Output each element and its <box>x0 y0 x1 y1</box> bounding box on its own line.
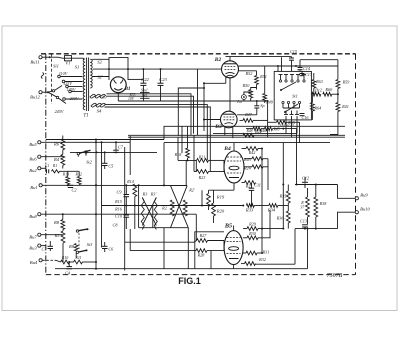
svg-text:La: La <box>236 99 241 104</box>
svg-text:C22: C22 <box>141 77 149 82</box>
wire B3 grid left <box>203 83 221 131</box>
svg-text:R64: R64 <box>313 106 321 111</box>
tube B3 pins <box>225 126 233 138</box>
svg-text:Bu1: Bu1 <box>30 185 37 190</box>
wire v197 <box>197 69 199 135</box>
resistor R3' <box>150 191 157 196</box>
fuse V1 <box>63 56 74 66</box>
resistor R3 <box>142 191 148 196</box>
resistor R11 <box>70 255 97 264</box>
wire v211 <box>210 251 212 269</box>
wire Bu8 <box>29 213 196 219</box>
wire B3 plate right <box>237 114 257 116</box>
svg-text:C12: C12 <box>302 176 309 181</box>
label R15 <box>114 199 122 204</box>
svg-text:R45: R45 <box>272 127 279 131</box>
svg-text:R36–: R36– <box>276 216 287 221</box>
wire bus v101 <box>101 142 103 248</box>
svg-text:Si1: Si1 <box>53 64 59 69</box>
wire Bu2 <box>29 167 46 173</box>
capacitor C12 <box>302 176 309 189</box>
svg-text:S2′: S2′ <box>97 75 104 80</box>
label B2 <box>214 57 222 63</box>
svg-text:C2: C2 <box>72 187 77 192</box>
svg-text:Sm1: Sm1 <box>141 88 148 93</box>
svg-text:R41: R41 <box>341 104 349 109</box>
wire mid-left row <box>70 151 157 153</box>
svg-text:V1: V1 <box>65 61 70 66</box>
svg-text:R12: R12 <box>74 171 81 176</box>
terminal Bu10 <box>338 207 371 229</box>
svg-text:St2: St2 <box>86 160 92 165</box>
label St1 <box>292 94 298 99</box>
wire Bu6 <box>29 155 63 161</box>
svg-text:T1: T1 <box>83 114 88 119</box>
bus line 2 <box>128 136 345 138</box>
capacitor C22 <box>140 69 149 101</box>
wire v138 <box>138 185 140 227</box>
switch St2 <box>77 150 93 164</box>
resistor R36 <box>276 203 291 229</box>
label S2' <box>97 75 104 80</box>
svg-text:R1: R1 <box>52 164 57 168</box>
svg-text:B1: B1 <box>123 86 130 92</box>
resistor R35 <box>279 185 291 204</box>
wire v164b <box>139 228 171 269</box>
svg-text:R19: R19 <box>216 195 225 200</box>
tap 110V <box>58 71 83 78</box>
svg-text:C5: C5 <box>108 163 113 168</box>
wire v196 <box>195 160 197 240</box>
tube B3 <box>221 111 238 128</box>
tube B4 <box>224 151 244 183</box>
svg-text:St3: St3 <box>87 242 93 247</box>
resistor R32 <box>241 229 295 266</box>
svg-text:S2: S2 <box>97 60 102 65</box>
wire c13 row <box>295 228 338 230</box>
svg-text:R24: R24 <box>243 165 251 170</box>
tap 245V <box>55 98 83 114</box>
svg-text:R59: R59 <box>342 80 351 85</box>
svg-text:R18: R18 <box>174 152 183 157</box>
wire S2 to B1 <box>92 59 143 79</box>
svg-text:Bu3: Bu3 <box>29 245 37 250</box>
capacitor C3 <box>29 241 53 252</box>
svg-text:200V: 200V <box>70 96 79 101</box>
svg-text:R10: R10 <box>61 255 68 260</box>
svg-text:R2: R2 <box>161 206 167 211</box>
wire right top <box>300 60 338 80</box>
svg-text:Bu10: Bu10 <box>360 207 370 212</box>
svg-text:R29: R29 <box>248 222 257 227</box>
AC squiggle <box>41 73 44 79</box>
svg-text:R8: R8 <box>53 220 60 225</box>
wire Bu7 <box>29 233 63 239</box>
svg-text:C17: C17 <box>305 72 313 77</box>
svg-text:R43: R43 <box>243 157 251 162</box>
resistor R28 <box>130 249 224 258</box>
svg-text:C15: C15 <box>290 49 297 54</box>
wire v283 <box>282 143 284 230</box>
wire v224 <box>223 160 225 250</box>
wire top bus <box>93 68 222 70</box>
wire v268 <box>267 159 269 190</box>
svg-text:C16: C16 <box>302 115 310 120</box>
svg-text:R28: R28 <box>197 253 206 258</box>
wire hv bottom <box>118 100 264 102</box>
resistor R19 <box>207 190 225 210</box>
rectifier B1 anode wires <box>109 58 128 80</box>
resistor R41 <box>336 103 349 112</box>
svg-text:R23: R23 <box>198 175 206 180</box>
wire R41 down <box>330 112 338 135</box>
resistor R59 <box>336 80 350 89</box>
capacitor Sp <box>254 100 264 115</box>
svg-text:R30: R30 <box>248 231 257 236</box>
signature <box>327 273 343 279</box>
resistor R4 <box>53 154 65 168</box>
svg-text:R49: R49 <box>265 100 274 105</box>
svg-text:R14: R14 <box>126 179 134 184</box>
wire R59-R41 <box>337 89 339 103</box>
svg-text:R35: R35 <box>279 194 287 199</box>
svg-text:Bu8: Bu8 <box>29 214 37 219</box>
resistor R21 <box>178 155 224 163</box>
label B1 <box>123 86 135 101</box>
wire v182 <box>181 126 183 153</box>
tube B2 pins <box>226 57 230 112</box>
svg-text:St1: St1 <box>292 94 298 99</box>
resistor R13 <box>62 171 70 185</box>
resistor R49 <box>263 94 274 105</box>
label C8 <box>113 223 119 228</box>
chassis border left <box>45 54 47 275</box>
B5 box <box>195 232 224 269</box>
resistor R37 <box>300 197 309 217</box>
wire Bu1 <box>30 184 187 190</box>
switch box St1 <box>274 71 311 120</box>
transformer core <box>87 58 89 112</box>
choke Dr2 <box>312 88 322 97</box>
switch contacts upper <box>279 75 307 83</box>
switch contacts lower <box>282 101 301 108</box>
wire Bu5 <box>29 141 130 147</box>
small R1 R2 <box>45 164 79 173</box>
bus line 1 <box>128 134 345 136</box>
wire bus v124 <box>124 147 126 271</box>
svg-text:Bu4: Bu4 <box>30 260 38 265</box>
resistor R46 <box>259 127 273 134</box>
label T1 <box>83 114 88 119</box>
tube B5 pins <box>233 226 235 269</box>
X network small <box>141 198 157 230</box>
label R47 <box>244 112 253 117</box>
resistor R27 <box>125 233 224 242</box>
wire bottom long <box>55 228 309 269</box>
capacitor C2 <box>68 185 77 192</box>
resistor R22 <box>243 129 262 137</box>
resistor R10 <box>61 255 70 264</box>
svg-text:C3: C3 <box>42 247 47 252</box>
winding S3 <box>90 94 107 99</box>
wire v178 <box>177 137 179 160</box>
svg-text:R50: R50 <box>242 83 251 88</box>
wire v152 <box>152 206 154 228</box>
resistor R5 <box>53 230 64 263</box>
center box outer <box>164 126 345 139</box>
wire c12 row <box>295 184 338 186</box>
capacitor C23 <box>158 69 168 101</box>
svg-text:Bu2: Bu2 <box>29 168 37 173</box>
tube B4 pins <box>233 143 235 190</box>
capacitor C13 <box>300 219 308 229</box>
svg-text:R34: R34 <box>267 208 276 213</box>
resistor R45 <box>272 127 279 131</box>
svg-text:R11: R11 <box>74 255 81 260</box>
svg-text:Bu12: Bu12 <box>30 95 40 100</box>
switch St3 lower <box>76 242 93 254</box>
resistor R8 <box>53 213 65 229</box>
resistor R50 <box>242 83 253 98</box>
svg-text:Bu6: Bu6 <box>29 157 37 162</box>
svg-text:R51: R51 <box>259 74 267 79</box>
tube B2 <box>222 61 239 78</box>
label g1g2g3 <box>279 123 294 127</box>
wire v178 upper <box>178 87 205 136</box>
svg-text:S4: S4 <box>97 109 102 114</box>
resistor R60 <box>323 87 338 96</box>
wire box top <box>278 57 302 75</box>
svg-text:R9: R9 <box>68 244 75 249</box>
svg-text:R27: R27 <box>199 233 208 238</box>
wire Bu4 <box>30 259 61 266</box>
wire v186 <box>186 160 188 268</box>
svg-text:R5: R5 <box>53 233 60 238</box>
resistor R47 <box>240 119 268 123</box>
capacitor C14 <box>298 66 310 71</box>
wire B2 plate right <box>238 65 338 67</box>
svg-text:R20: R20 <box>216 209 225 214</box>
wire heater S3 <box>107 94 194 136</box>
svg-text:B2: B2 <box>214 57 222 63</box>
svg-text:R63: R63 <box>315 79 323 84</box>
resistor R31 <box>243 250 269 255</box>
resistor R9 <box>68 244 78 259</box>
switch wiper upper <box>280 82 296 91</box>
terminal Bu12 <box>30 91 42 100</box>
wire Bu11 to fuse <box>42 56 62 58</box>
bus line 5 <box>213 133 297 135</box>
wire v165 <box>163 143 165 186</box>
terminal Bu11 <box>30 56 42 65</box>
capacitor C5 <box>102 151 113 169</box>
winding S4 <box>91 103 105 113</box>
svg-text:R3: R3 <box>142 191 148 196</box>
resistor R24 <box>243 165 268 170</box>
resistor R42 <box>242 147 263 155</box>
wire B2 grid right <box>238 71 256 76</box>
wire B2 cathode left <box>203 82 226 84</box>
lamp La <box>236 95 246 104</box>
capacitor C10 <box>115 214 129 219</box>
caption FIG.1 <box>178 276 201 286</box>
resistor R33 <box>245 204 254 213</box>
label B5 <box>224 223 232 230</box>
wire bus v130 <box>129 136 131 251</box>
label R2' <box>188 187 195 192</box>
svg-text:R48: R48 <box>245 129 252 133</box>
cluster wires <box>102 185 245 229</box>
svg-text:R4: R4 <box>53 157 60 162</box>
capacitor C7 <box>113 141 124 152</box>
label S2 <box>97 60 102 65</box>
capacitor C11 <box>249 183 261 207</box>
svg-text:R47: R47 <box>244 112 253 117</box>
svg-text:R31: R31 <box>262 250 270 255</box>
resistor R38 <box>308 185 328 229</box>
capacitor C9 <box>117 184 130 196</box>
resistor R29 <box>243 222 283 231</box>
svg-text:R2′: R2′ <box>188 187 195 192</box>
resistor R64 <box>311 94 322 120</box>
svg-text:7567B: 7567B <box>327 273 343 279</box>
svg-text:Bu7: Bu7 <box>29 235 37 240</box>
wire chain <box>246 128 297 130</box>
wire v194 <box>193 135 195 160</box>
tube B5 <box>224 231 243 265</box>
svg-text:B3: B3 <box>214 124 222 130</box>
wire v267 <box>267 100 269 137</box>
svg-text:R3′: R3′ <box>150 191 157 196</box>
capacitor C15 <box>289 49 297 72</box>
svg-text:R42: R42 <box>248 150 256 155</box>
resistor R65 <box>268 120 300 125</box>
label B3 <box>214 124 222 130</box>
svg-text:R60: R60 <box>324 87 333 92</box>
svg-text:Bu5: Bu5 <box>29 142 37 147</box>
wire B2 top <box>226 56 292 58</box>
tube B1 <box>110 77 126 93</box>
X network big <box>170 186 188 228</box>
tap 200V <box>69 90 83 101</box>
bus line 3 <box>46 139 164 141</box>
resistor R34 <box>254 204 288 213</box>
switch St3 upper <box>76 228 88 232</box>
wire fuse to primary <box>74 58 84 60</box>
switch wiper lower <box>284 104 298 113</box>
label S1 <box>75 65 80 70</box>
svg-text:Sp: Sp <box>260 103 264 108</box>
resistor R63 <box>312 73 323 94</box>
chassis border bottom <box>46 274 356 276</box>
switch wiper Bu12 <box>42 86 66 104</box>
svg-text:S3: S3 <box>102 95 106 100</box>
svg-text:R16: R16 <box>114 207 123 212</box>
chassis border top <box>41 53 356 55</box>
tap 125V <box>62 80 82 86</box>
chassis border right <box>355 54 357 275</box>
switch St3 gang <box>78 233 80 249</box>
resistor R30 <box>243 210 270 240</box>
wire heater S4 <box>105 105 211 172</box>
svg-text:Bu11: Bu11 <box>30 60 39 65</box>
resistor R12 <box>74 171 81 185</box>
wire v202b <box>201 190 203 205</box>
svg-text:FIG.1: FIG.1 <box>178 276 201 286</box>
resistor R52 <box>245 71 267 84</box>
transformer T1 primary winding <box>83 59 85 110</box>
wire v262 <box>261 148 263 255</box>
svg-text:R52: R52 <box>245 71 253 76</box>
capacitor C4 <box>65 261 72 276</box>
label B4 <box>223 146 231 152</box>
svg-text:Bu9: Bu9 <box>360 193 368 198</box>
bus line 4 <box>164 142 330 144</box>
resistor R23 <box>194 160 224 180</box>
switch gang dashed line <box>51 54 53 104</box>
wire B1 cathode <box>117 92 119 101</box>
resistor R18 <box>174 148 190 161</box>
transformer secondary S2/S2' <box>90 59 92 88</box>
label R16 <box>114 207 123 212</box>
terminal Bu9 <box>338 185 369 200</box>
label R2 <box>161 206 167 211</box>
wire v296 <box>297 122 300 185</box>
tap 145V <box>66 85 83 92</box>
capacitor C6 <box>102 242 114 252</box>
resistor R43 <box>243 157 268 162</box>
label Si1 <box>53 64 59 69</box>
label Sm1 <box>140 88 150 99</box>
svg-text:C11: C11 <box>254 183 261 188</box>
svg-text:C4: C4 <box>65 271 70 276</box>
svg-text:110V: 110V <box>59 71 68 76</box>
wire v188 <box>187 126 189 148</box>
resistor R25 <box>242 181 256 189</box>
svg-text:R32: R32 <box>258 257 266 262</box>
resistor R48 <box>245 127 261 134</box>
resistor R20 <box>209 190 235 223</box>
svg-text:B5: B5 <box>224 223 232 230</box>
resistor R14 <box>126 179 137 196</box>
svg-text:C1: C1 <box>45 164 50 168</box>
capacitor C16 <box>300 114 310 121</box>
svg-text:R38: R38 <box>319 201 328 206</box>
svg-text:R33: R33 <box>245 208 254 213</box>
switch contacts bottom <box>284 111 299 115</box>
svg-text:R15: R15 <box>114 199 122 204</box>
wire bus v96 <box>95 139 97 270</box>
svg-text:C14: C14 <box>303 66 310 71</box>
svg-text:245V: 245V <box>55 109 64 114</box>
capacitor C17 <box>300 72 313 77</box>
svg-text:C13: C13 <box>300 219 307 224</box>
resistor R6 <box>53 136 65 155</box>
wires box bottom <box>286 116 297 137</box>
svg-text:B4: B4 <box>223 146 231 152</box>
svg-text:S1: S1 <box>75 65 80 70</box>
wires lamp cluster <box>244 66 265 103</box>
